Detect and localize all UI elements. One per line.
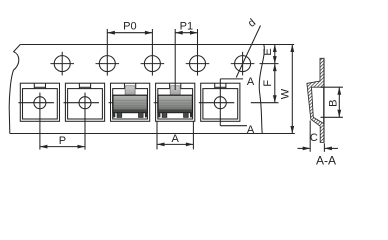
pocket 1 inner outline [23, 89, 58, 119]
section line A (bottom) [220, 124, 255, 136]
svg-text:P1: P1 [180, 20, 193, 32]
wire: P0 right extension line (hole 3 centerline) [151, 29, 153, 76]
sprocket hole 3 [141, 56, 165, 72]
section A-A pocket cavity [312, 87, 324, 123]
dimension W [279, 45, 294, 134]
wire: P1 right extension line (hole 4 centerline) [197, 29, 199, 76]
wire: tape bottom edge + W extension line [10, 133, 295, 135]
section line A (top) [220, 76, 255, 126]
svg-text:P: P [59, 135, 66, 147]
pocket 4 outer outline [156, 83, 195, 121]
dimension E [262, 45, 277, 64]
svg-text:F: F [262, 80, 274, 87]
pocket 2 index notch [79, 83, 90, 88]
wire: P1 left extension line (pocket 4 centerline) [174, 29, 176, 90]
svg-text:A: A [172, 133, 180, 145]
pocket 4 inner outline [158, 89, 193, 119]
sprocket hole 1 [50, 52, 74, 76]
wire: tape top edge + E/W extension line [20, 44, 294, 46]
dimension P0 [107, 20, 152, 34]
pocket 2 outer outline [65, 83, 104, 121]
svg-text:B: B [328, 100, 340, 107]
pocket 1 center cross [18, 97, 54, 109]
sprocket hole 4 [186, 56, 210, 72]
svg-text:P0: P0 [123, 20, 136, 32]
wire: tape left break line [9, 45, 20, 134]
wire: tape right break line [259, 45, 264, 134]
wire: hole centerline extension (E/F) [260, 63, 279, 65]
component in pocket 3 [109, 86, 148, 118]
pocket 1 outer outline [20, 83, 59, 121]
dimension F [262, 64, 277, 103]
sprocket hole 2 [96, 56, 120, 72]
pocket 2 center cross [64, 97, 100, 109]
dimension A (pocket width) [157, 121, 193, 149]
wire: section tape surface line [323, 58, 325, 142]
svg-text:W: W [279, 88, 291, 99]
dimension P1 [175, 20, 197, 34]
leader and label d (sprocket hole diameter) [236, 17, 260, 78]
svg-text:A: A [247, 124, 255, 136]
pocket 5 inner outline [203, 89, 238, 119]
pocket 1 index notch [34, 83, 45, 88]
pocket 5 index notch [215, 83, 226, 88]
svg-text:C: C [310, 132, 318, 144]
svg-text:E: E [262, 48, 274, 55]
pocket 5 center cross [199, 97, 235, 109]
dimension P [40, 93, 85, 150]
dimension C [298, 121, 339, 152]
component in pocket 4 [154, 86, 193, 118]
svg-text:A: A [247, 76, 255, 88]
pocket 4 index notch [170, 83, 181, 88]
pocket 3 index notch [125, 83, 136, 88]
pocket 3 outer outline [111, 83, 150, 121]
wire: pocket centerline extension (F) [251, 102, 279, 104]
svg-text:A-A: A-A [316, 153, 336, 167]
dimension B [321, 87, 343, 117]
wire: P0 left extension line (hole 2 centerline) [106, 29, 108, 76]
svg-text:d: d [246, 17, 258, 30]
pocket 2 inner outline [68, 89, 103, 119]
section A-A tape wall (hatched) [307, 58, 324, 142]
pocket 5 outer outline [201, 83, 240, 121]
pocket 3 inner outline [113, 89, 148, 119]
sprocket hole 5 [231, 52, 255, 76]
